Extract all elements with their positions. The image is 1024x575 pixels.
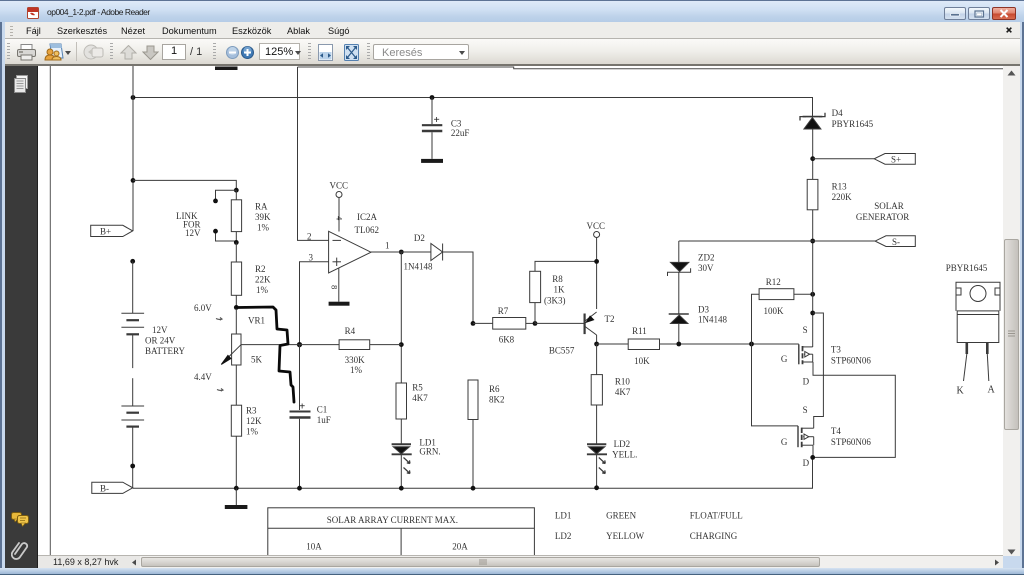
svg-text:10A: 10A [306, 542, 322, 552]
VCC node T2 [587, 221, 606, 309]
svg-text:S: S [803, 405, 808, 415]
node T4 drain [810, 455, 815, 460]
capacitor C3 22uF [422, 98, 470, 159]
svg-text:GENERATOR: GENERATOR [856, 212, 909, 222]
paperclip icon [11, 540, 29, 560]
svg-text:R4: R4 [345, 326, 356, 336]
resistor R12 100K [752, 277, 813, 344]
fit page icon [344, 44, 359, 61]
svg-text:RA: RA [255, 202, 268, 212]
svg-text:R13: R13 [832, 182, 848, 192]
terminal flag B+ [91, 225, 133, 236]
svg-text:VCC: VCC [587, 221, 606, 231]
svg-text:8K2: 8K2 [489, 395, 505, 405]
op-amp ground pin8 [329, 268, 350, 306]
node pin3/VR1/R4/C1 [297, 342, 302, 347]
svg-text:LD2: LD2 [555, 531, 572, 541]
wire branch to RA [133, 180, 236, 190]
svg-text:GRN.: GRN. [419, 447, 440, 457]
svg-text:R8: R8 [552, 274, 563, 284]
svg-text:SOLAR: SOLAR [874, 201, 904, 211]
svg-text:10K: 10K [634, 356, 650, 366]
svg-text:OR 24V: OR 24V [145, 336, 176, 346]
resistor R7 6K8 [473, 306, 535, 345]
resistor R11 10K [597, 326, 799, 366]
LED LD2 YELL [587, 439, 637, 488]
terminal flag S+ [813, 154, 916, 165]
svg-text:PBYR1645: PBYR1645 [946, 263, 988, 273]
svg-text:1uF: 1uF [317, 415, 331, 425]
wire T3 drain loop [813, 362, 896, 457]
node 6.0V [234, 305, 239, 310]
svg-text:T3: T3 [831, 345, 841, 355]
svg-text:39K: 39K [255, 212, 271, 222]
svg-text:S: S [803, 325, 808, 335]
svg-text:VCC: VCC [330, 181, 349, 191]
node B+ branch [131, 178, 136, 183]
svg-text:SOLAR ARRAY CURRENT MAX.: SOLAR ARRAY CURRENT MAX. [327, 515, 458, 525]
svg-text:D: D [803, 458, 810, 468]
arrow marker 4.4V [217, 389, 223, 392]
svg-text:D: D [803, 377, 810, 387]
svg-text:R5: R5 [412, 383, 423, 393]
node C1/B- rail [297, 486, 302, 491]
node LD2/B- [594, 485, 599, 490]
svg-text:4.4V: 4.4V [194, 372, 212, 382]
legend LED states [555, 511, 743, 542]
link for 12V (open jumper) [176, 190, 236, 241]
node rail-C3 [430, 95, 435, 100]
page frame left border [49, 66, 51, 555]
svg-text:R11: R11 [632, 326, 647, 336]
resistor R6 8K2 [468, 380, 505, 488]
svg-text:D3: D3 [698, 305, 709, 315]
node rail-left [131, 95, 136, 100]
svg-text:6.0V: 6.0V [194, 303, 212, 313]
svg-text:LD1: LD1 [555, 511, 572, 521]
wire T4 gate feed [752, 344, 799, 426]
svg-text:R10: R10 [615, 377, 631, 387]
svg-text:100K: 100K [764, 306, 785, 316]
node R6/R7 [471, 321, 476, 326]
svg-text:G: G [781, 437, 788, 447]
svg-text:(3K3): (3K3) [544, 296, 566, 306]
ground at B- rail [225, 488, 248, 509]
wire op-amp pin2 net [298, 67, 329, 240]
svg-text:A: A [988, 385, 996, 396]
svg-text:12V: 12V [152, 325, 168, 335]
collaborate icon [44, 43, 64, 62]
wire D2 to R6/R7 net [443, 252, 473, 323]
node LD1/B- [399, 486, 404, 491]
svg-text:IC2A: IC2A [357, 212, 378, 222]
svg-text:ZD2: ZD2 [698, 253, 715, 263]
svg-text:BATTERY: BATTERY [145, 346, 186, 356]
wire VR1 wiper to node [241, 344, 300, 346]
node R7/R8/T2 base [533, 321, 538, 326]
svg-text:6K8: 6K8 [499, 335, 515, 345]
wire top clipped net [298, 67, 1004, 69]
resistor R2 22K [231, 242, 271, 307]
svg-text:8: 8 [330, 285, 340, 289]
VCC node op-amp [330, 181, 349, 232]
table solar array current [268, 508, 535, 556]
svg-text:22K: 22K [255, 275, 271, 285]
svg-text:R12: R12 [766, 277, 781, 287]
wire main vertical (solar +) [812, 129, 814, 347]
svg-text:S+: S+ [891, 155, 901, 165]
capacitor C1 1uF [290, 345, 331, 489]
potentiometer VR1 5K [221, 307, 265, 405]
resistor RA 39K [231, 190, 271, 242]
resistor R3 12K [231, 405, 262, 488]
diode D4 PBYR1645 schottky [800, 108, 874, 129]
node S- [810, 239, 815, 244]
svg-text:FLOAT/FULL: FLOAT/FULL [690, 511, 743, 521]
svg-text:T2: T2 [605, 314, 615, 324]
svg-text:1N4148: 1N4148 [404, 262, 433, 272]
svg-text:T4: T4 [831, 426, 841, 436]
previous view (disabled) [83, 44, 104, 61]
svg-text:22uF: 22uF [451, 128, 470, 138]
zener ZD2 30V [668, 241, 715, 314]
resistor R13 220K [807, 179, 852, 209]
arrow marker 6.0V [216, 318, 222, 321]
svg-text:LD2: LD2 [614, 439, 631, 449]
svg-text:12V: 12V [185, 228, 201, 238]
svg-text:1%: 1% [350, 365, 363, 375]
svg-text:TL062: TL062 [355, 225, 380, 235]
node R12/main rail [810, 292, 815, 297]
svg-text:B-: B- [100, 484, 109, 494]
svg-text:R6: R6 [489, 384, 500, 394]
wire left vertical to B+ [132, 66, 134, 231]
svg-text:20A: 20A [452, 542, 468, 552]
zoom out [226, 46, 239, 59]
svg-text:BC557: BC557 [549, 346, 575, 356]
svg-text:1%: 1% [246, 427, 259, 437]
diode D2 1N4148 [404, 233, 443, 272]
resistor R4 330K [300, 326, 402, 375]
comments icon [11, 511, 29, 528]
ground (clipped, top) [215, 67, 238, 71]
svg-text:2: 2 [307, 232, 312, 242]
svg-text:R7: R7 [498, 306, 509, 316]
terminal flag B- [92, 482, 133, 493]
svg-text:YELL.: YELL. [612, 450, 637, 460]
node T2 collector [594, 342, 599, 347]
wire op-amp pin3 net [300, 262, 329, 345]
pages icon [13, 75, 28, 94]
svg-text:4K7: 4K7 [615, 387, 631, 397]
svg-text:220K: 220K [832, 192, 853, 202]
svg-text:PBYR1645: PBYR1645 [832, 119, 874, 129]
LED LD1 GRN [392, 438, 441, 489]
up arrow (disabled) [120, 45, 137, 60]
svg-text:4K7: 4K7 [412, 393, 428, 403]
svg-text:R2: R2 [255, 264, 266, 274]
svg-text:C1: C1 [317, 405, 328, 415]
svg-text:D2: D2 [414, 233, 425, 243]
node link bottom [234, 240, 239, 245]
annotation thick trace [237, 307, 294, 402]
svg-text:R3: R3 [246, 406, 257, 416]
node op-amp output [399, 250, 404, 255]
svg-text:VR1: VR1 [248, 316, 265, 326]
node R3/B- [234, 486, 239, 491]
fit width icon [318, 44, 333, 61]
wire source bracket T3-T4 [813, 313, 824, 428]
svg-text:CHARGING: CHARGING [690, 531, 738, 541]
svg-text:S-: S- [892, 237, 900, 247]
node gate branch [749, 342, 754, 347]
svg-text:1: 1 [385, 241, 390, 251]
node ZD2-D3/gate wire [676, 342, 681, 347]
node R6/B- [471, 486, 476, 491]
svg-text:12K: 12K [246, 416, 262, 426]
wire output down [400, 252, 402, 383]
MOSFET T3 STP60N06 [781, 325, 872, 387]
wire B- rail [133, 457, 813, 488]
node T3 source [810, 311, 815, 316]
package PBYR1645 TO-220 [946, 263, 1000, 397]
svg-text:YELLOW: YELLOW [606, 531, 644, 541]
svg-text:G: G [781, 354, 788, 364]
op-amp IC2A TL062 [307, 212, 390, 289]
down arrow (disabled) [142, 45, 159, 60]
ground for C3 [421, 159, 443, 163]
svg-text:D4: D4 [832, 108, 843, 118]
resistor R5 4K7 [396, 383, 428, 445]
resistor R10 4K7 [591, 344, 631, 444]
wire top rail B+ [133, 98, 813, 117]
svg-text:3: 3 [309, 253, 314, 263]
svg-text:STP60N06: STP60N06 [831, 437, 872, 447]
svg-text:1%: 1% [257, 223, 270, 233]
svg-text:STP60N06: STP60N06 [831, 356, 872, 366]
battery 12V/24V [121, 259, 185, 488]
node link top [234, 188, 239, 193]
diode D3 1N4148 [669, 305, 728, 344]
svg-text:1K: 1K [554, 285, 566, 295]
svg-text:330K: 330K [345, 355, 366, 365]
svg-text:1%: 1% [256, 285, 269, 295]
svg-text:B+: B+ [100, 227, 111, 237]
resistor R8 1K (3K3) [530, 261, 597, 323]
svg-text:GREEN: GREEN [606, 511, 636, 521]
node VCC/R8 [594, 259, 599, 264]
node R4 right [399, 342, 404, 347]
svg-text:K: K [957, 386, 965, 397]
wire output to D2 [371, 251, 431, 253]
transistor T2 BC557 [535, 312, 615, 356]
svg-text:30V: 30V [698, 263, 714, 273]
terminal flag S- [679, 236, 916, 247]
svg-text:5K: 5K [251, 355, 263, 365]
printer icon [17, 44, 36, 61]
MOSFET T4 STP60N06 [781, 405, 872, 468]
zoom in [241, 46, 254, 59]
node S+ [810, 156, 815, 161]
svg-text:1N4148: 1N4148 [698, 315, 727, 325]
